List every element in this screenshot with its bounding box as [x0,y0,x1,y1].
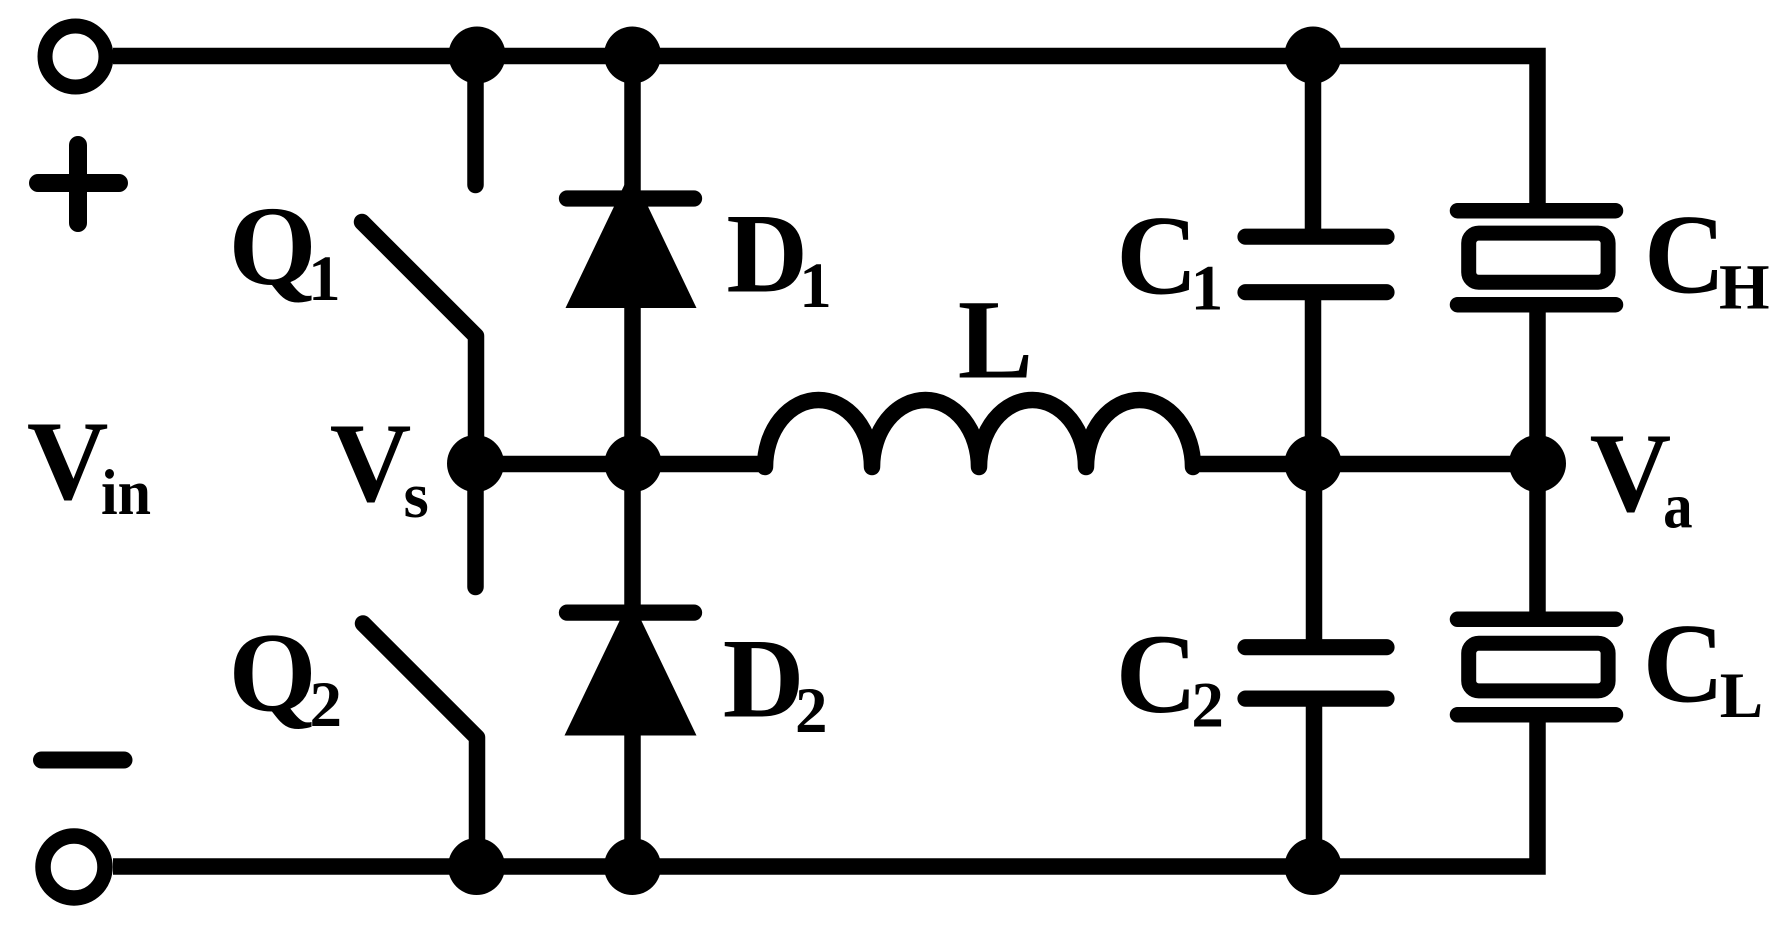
svg-text:L: L [958,278,1033,403]
diode D2: anode wire to bottom rail [624,733,641,867]
junction: top rail / Q1 column [449,27,506,84]
svg-text:a: a [1663,471,1693,543]
battery C_L: body box [1469,643,1608,691]
battery C_L: bottom plate [1458,707,1616,723]
battery C_H: body box [1469,233,1608,282]
Q2 label [229,611,342,741]
junction: bottom rail / Q2 column [448,838,505,895]
wire: node V_a to C_L [1529,464,1546,620]
svg-text:D: D [726,192,808,317]
diode D1: cathode bar [567,190,694,206]
junction: top rail / D1 column [604,27,661,84]
diode D2: cathode wire from mid rail [624,464,641,613]
wire: node V_s to D2 column to inductor [476,456,766,473]
svg-text:in: in [101,457,151,529]
wire: inductor to node V_a [1193,456,1538,473]
C_H label [1644,193,1770,324]
D2 label [723,617,828,747]
inductor L (4 humps) [765,400,1193,467]
C1 label [1116,194,1223,325]
svg-text:2: 2 [310,669,343,741]
switch Q2: upper stub from node V_s [467,464,484,588]
Q1 label [229,184,341,315]
svg-text:V: V [1590,411,1672,536]
C_L label [1643,602,1763,732]
svg-text:C: C [1116,612,1198,737]
wire: C_H to node V_a [1529,305,1546,464]
capacitor C2: top wire from mid rail [1306,464,1323,648]
plus sign (input polarity) [38,145,119,223]
svg-text:L: L [1720,660,1763,732]
svg-text:Q: Q [229,184,317,309]
junction: bottom rail / D2 column [604,838,661,895]
input terminal - (bottom-left circle) [43,836,105,898]
switch Q1: blade and lower wire to node V_s [362,222,476,464]
svg-text:1: 1 [1191,253,1224,325]
svg-text:H: H [1719,252,1770,324]
junction: top rail / C1 column [1285,27,1342,84]
capacitor C2: top plate [1246,639,1387,655]
D1 label [726,192,831,322]
junction: mid rail / C1-C2 column [1285,435,1342,492]
V_s label [330,401,429,532]
capacitor C2: bottom plate [1246,690,1387,706]
V_a label [1590,411,1693,542]
input terminal + (top-left circle) [45,26,106,87]
svg-text:V: V [27,399,109,524]
svg-text:1: 1 [308,243,341,315]
battery C_H: top plate [1458,203,1616,219]
node V_a junction dot [1509,435,1566,492]
switch Q2: blade and lower wire to bottom rail [363,624,477,867]
capacitor C2: bottom wire to bottom rail [1306,699,1323,867]
svg-text:C: C [1643,602,1725,727]
junction: bottom rail / C2 column [1285,838,1342,895]
diode D1: cathode wire from top rail [624,56,641,199]
diode D2: cathode bar [567,604,694,620]
svg-text:s: s [404,460,429,532]
switch Q1: upper stub from top rail [467,56,484,185]
svg-text:2: 2 [1191,669,1224,741]
capacitor C1: bottom wire to mid rail [1305,292,1322,463]
svg-text:2: 2 [795,675,828,747]
diode D1: anode triangle [566,171,697,308]
svg-text:1: 1 [799,250,832,322]
svg-text:Q: Q [229,611,317,736]
capacitor C1: top wire from top rail [1305,55,1322,237]
junction: mid rail / D column [605,435,662,492]
wire: top rail from + terminal to top-right corner down to C_H [113,56,1538,211]
wire: bottom rail from - terminal to bottom-right corner up to C_L [113,715,1538,867]
node V_s junction dot [447,435,504,492]
svg-text:C: C [1644,193,1726,318]
capacitor C1: top plate [1246,229,1387,245]
svg-text:V: V [330,401,412,526]
svg-text:C: C [1116,194,1198,319]
minus sign (input polarity) [42,752,125,769]
svg-text:D: D [723,617,805,742]
C2 label [1116,612,1224,741]
diode D1: anode wire to V_s row [624,306,641,464]
diode D2: anode triangle [565,598,697,736]
capacitor C1: bottom plate [1246,284,1387,300]
V_in label [27,399,151,529]
battery C_H: bottom plate [1458,297,1616,313]
battery C_L: top plate [1458,612,1616,628]
